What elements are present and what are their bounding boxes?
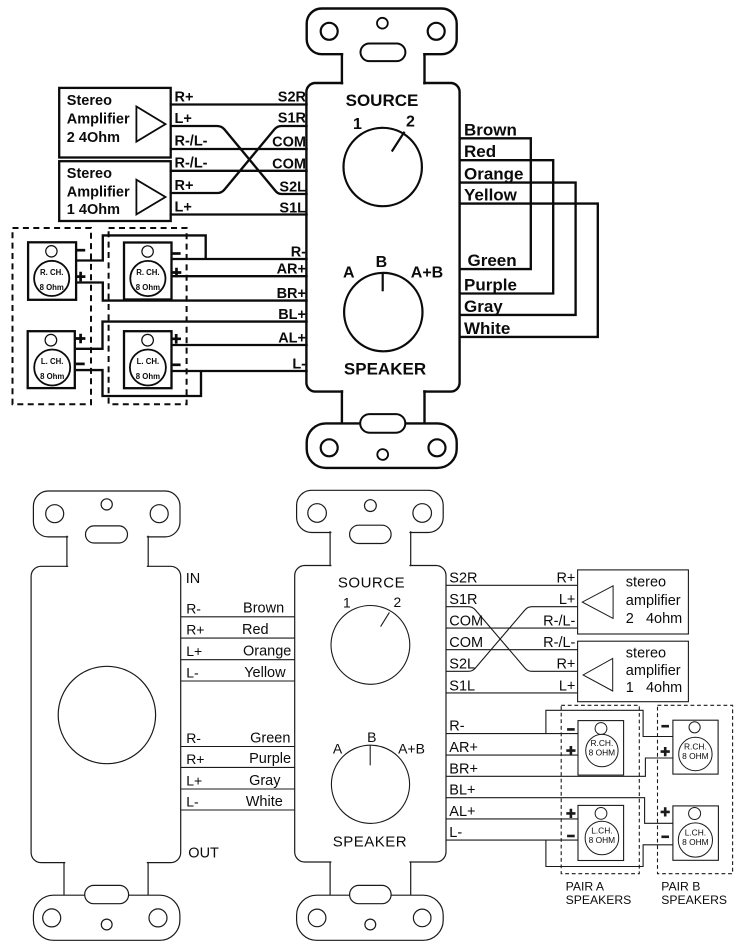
amplifier box: stereo amplifier 2 4ohm (bottom) xyxy=(578,570,689,634)
svg-text:Orange: Orange xyxy=(243,644,291,660)
svg-text:AR+: AR+ xyxy=(449,740,478,756)
wire OUT R+ (Purple) xyxy=(181,766,295,768)
svg-text:SPEAKER: SPEAKER xyxy=(344,360,426,379)
svg-text:PAIR A: PAIR A xyxy=(566,880,605,894)
wire OUT L+ (Gray) xyxy=(181,788,295,790)
svg-text:R. CH.: R. CH. xyxy=(136,268,159,277)
plus terminal (pair B L.CH) xyxy=(76,334,86,344)
svg-text:COM: COM xyxy=(272,135,306,151)
svg-text:Red: Red xyxy=(242,622,269,638)
svg-text:Purple: Purple xyxy=(249,751,291,767)
svg-text:amplifier: amplifier xyxy=(626,663,681,679)
volume knob hole (bottom left plate) xyxy=(58,666,155,763)
svg-text:L+: L+ xyxy=(175,200,192,216)
speaker L.CH 8 Ohm (pair B, top) xyxy=(28,331,75,388)
svg-text:R+: R+ xyxy=(175,178,194,194)
svg-text:L+: L+ xyxy=(559,678,576,694)
wire IN L+ (Orange) xyxy=(181,659,295,661)
pair A dashed enclosure (top) xyxy=(109,228,187,404)
wire AL+ (bottom) xyxy=(446,818,578,820)
wire Red to Purple loop xyxy=(460,160,554,293)
svg-text:Stereo: Stereo xyxy=(67,166,112,182)
wire COM to amp2 R-/L- (bottom) xyxy=(446,627,577,629)
svg-text:B: B xyxy=(367,729,376,745)
amplifier box: Stereo Amplifier 1 4Ohm xyxy=(59,161,171,221)
speaker R.CH 8 Ohm (pair A, top) xyxy=(124,243,172,300)
svg-text:R+: R+ xyxy=(186,751,204,767)
svg-text:8 Ohm: 8 Ohm xyxy=(40,372,64,381)
svg-text:COM: COM xyxy=(449,614,483,630)
wire BR+ (bottom) xyxy=(446,758,673,776)
svg-text:R. CH.: R. CH. xyxy=(40,268,63,277)
svg-text:Brown: Brown xyxy=(464,120,517,139)
svg-text:8 OHM: 8 OHM xyxy=(682,751,709,761)
svg-text:S1R: S1R xyxy=(449,592,477,608)
svg-text:amplifier: amplifier xyxy=(626,593,681,609)
speaker R.CH 8 OHM (pair B, bottom) xyxy=(673,720,718,774)
minus terminal (pair B L.CH) xyxy=(76,363,85,366)
svg-text:Gray: Gray xyxy=(464,297,503,316)
svg-text:Yellow: Yellow xyxy=(464,186,518,205)
svg-text:A: A xyxy=(343,265,355,282)
svg-text:L-: L- xyxy=(186,794,199,810)
plus terminal (pair B L.CH bottom) xyxy=(661,807,670,816)
wire AR+ (bottom) xyxy=(446,754,578,756)
wire AR+ xyxy=(172,275,308,277)
svg-text:2 4ohm: 2 4ohm xyxy=(626,611,682,627)
svg-text:White: White xyxy=(246,794,283,810)
svg-text:R-/L-: R-/L- xyxy=(175,134,208,150)
svg-text:2 4Ohm: 2 4Ohm xyxy=(67,130,120,146)
wire IN L- (Yellow) xyxy=(181,680,295,682)
svg-text:L.CH.: L.CH. xyxy=(685,827,706,837)
wire L- net (bottom, pair A + pair B L.CH minus) xyxy=(446,840,673,866)
label PAIR B SPEAKERS xyxy=(661,880,727,907)
svg-text:SPEAKERS: SPEAKERS xyxy=(566,893,632,907)
speaker knob (bottom plate) xyxy=(331,745,409,823)
svg-text:L-: L- xyxy=(449,825,462,841)
svg-text:SPEAKER: SPEAKER xyxy=(333,833,407,850)
svg-text:R+: R+ xyxy=(556,571,575,587)
speaker L.CH 8 OHM (pair A, bottom) xyxy=(578,805,624,860)
svg-text:R-/L-: R-/L- xyxy=(543,614,575,630)
svg-text:Green: Green xyxy=(250,730,290,746)
pair B dashed enclosure (top) xyxy=(13,228,92,404)
svg-text:Amplifier: Amplifier xyxy=(67,111,130,127)
svg-text:stereo: stereo xyxy=(626,575,666,591)
minus terminal (pair A L.CH) xyxy=(172,363,181,366)
svg-text:L. CH.: L. CH. xyxy=(137,357,160,366)
minus terminal (pair B L.CH bottom) xyxy=(661,835,669,838)
svg-text:A+B: A+B xyxy=(398,741,425,757)
wire Brown to Green loop xyxy=(460,138,531,269)
wire Orange to Gray loop xyxy=(460,183,576,315)
wire BL+ (bottom) xyxy=(446,798,673,824)
selector wall plate (bottom right) xyxy=(295,490,446,940)
source knob (bottom plate) xyxy=(331,606,410,685)
svg-text:1: 1 xyxy=(353,116,362,133)
wire OUT R- (Green) xyxy=(181,746,295,748)
wire Yellow to White loop xyxy=(460,204,598,337)
svg-text:2: 2 xyxy=(406,114,415,131)
wire S1R to amp1 R+ (bottom crossover) xyxy=(446,607,577,672)
svg-text:R.CH.: R.CH. xyxy=(590,738,613,748)
svg-text:A+B: A+B xyxy=(411,265,443,282)
svg-text:BR+: BR+ xyxy=(449,761,478,777)
plus terminal (pair A R.CH bottom) xyxy=(566,746,575,755)
wire S2R to amp2 R+ (bottom) xyxy=(446,584,577,586)
plus terminal (pair A L.CH bottom) xyxy=(566,809,575,818)
plus terminal (pair B R.CH) xyxy=(76,272,86,282)
svg-text:PAIR B: PAIR B xyxy=(661,880,700,894)
svg-text:L.CH.: L.CH. xyxy=(591,825,612,835)
minus terminal (pair B R.CH bottom) xyxy=(661,725,669,728)
wire R- net (bottom, pair A + pair B R.CH minus) xyxy=(446,710,673,736)
minus terminal (pair A L.CH bottom) xyxy=(567,835,575,838)
svg-text:R-: R- xyxy=(291,245,306,261)
svg-text:L+: L+ xyxy=(175,111,192,127)
wire S1L to amp1 L+ (bottom) xyxy=(446,692,577,694)
svg-text:R+: R+ xyxy=(556,657,575,673)
wire amp1 R-/L- to COM xyxy=(170,170,308,172)
svg-text:8 Ohm: 8 Ohm xyxy=(136,283,160,292)
wire amp2 L+ to S2L (crossover) xyxy=(170,126,308,194)
svg-text:8 OHM: 8 OHM xyxy=(589,748,616,758)
svg-text:Brown: Brown xyxy=(243,601,284,617)
svg-text:R-/L-: R-/L- xyxy=(543,635,575,651)
svg-text:1: 1 xyxy=(343,596,351,611)
label PAIR A SPEAKERS xyxy=(566,880,632,907)
svg-text:SPEAKERS: SPEAKERS xyxy=(661,893,727,907)
plus terminal (pair A L.CH) xyxy=(171,334,181,344)
svg-text:Stereo: Stereo xyxy=(67,93,112,109)
svg-text:1 4Ohm: 1 4Ohm xyxy=(67,202,120,218)
svg-text:8 Ohm: 8 Ohm xyxy=(136,372,160,381)
minus terminal (pair A R.CH bottom) xyxy=(567,728,575,731)
svg-text:L-: L- xyxy=(292,357,306,373)
amplifier box: Stereo Amplifier 2 4Ohm xyxy=(59,88,171,158)
svg-text:R+: R+ xyxy=(175,90,194,106)
speaker R.CH 8 Ohm (pair B, top) xyxy=(28,242,76,299)
svg-text:L-: L- xyxy=(186,665,199,681)
svg-text:B: B xyxy=(376,254,388,271)
svg-text:R-: R- xyxy=(186,600,201,616)
speaker knob (top plate) xyxy=(344,273,422,351)
speaker R.CH 8 OHM (pair A, bottom) xyxy=(578,721,624,776)
svg-text:R-: R- xyxy=(449,719,464,735)
minus terminal (pair B R.CH) xyxy=(76,249,85,252)
svg-text:S2L: S2L xyxy=(279,180,306,196)
wire R- net (to pair A and pair B R.CH minus) xyxy=(76,235,308,260)
plus terminal (pair B R.CH bottom) xyxy=(661,747,670,756)
speaker L.CH 8 Ohm (pair A, top) xyxy=(124,331,172,388)
svg-text:R.CH.: R.CH. xyxy=(684,741,707,751)
wire amp1 R+ to S1R (crossover) xyxy=(170,126,308,193)
svg-text:Red: Red xyxy=(464,142,496,161)
wire amp2 R-/L- to COM xyxy=(170,148,308,150)
svg-text:Amplifier: Amplifier xyxy=(67,184,130,200)
svg-text:L+: L+ xyxy=(186,643,202,659)
wire COM to amp1 R-/L- (bottom) xyxy=(446,649,577,651)
svg-text:2: 2 xyxy=(393,595,401,610)
svg-text:BL+: BL+ xyxy=(278,307,306,323)
svg-text:AR+: AR+ xyxy=(277,262,306,278)
svg-text:L+: L+ xyxy=(186,773,202,789)
svg-text:8 OHM: 8 OHM xyxy=(682,837,709,847)
svg-text:AL+: AL+ xyxy=(449,804,475,820)
speaker L.CH 8 OHM (pair B, bottom) xyxy=(673,806,719,860)
wall plate (top selector plate) xyxy=(306,9,459,468)
svg-text:S2R: S2R xyxy=(449,571,477,587)
svg-text:A: A xyxy=(333,741,343,757)
wire L- net (to pair A and pair B L.CH minus) xyxy=(76,370,308,396)
svg-text:COM: COM xyxy=(449,635,483,651)
svg-text:L+: L+ xyxy=(559,592,576,608)
svg-text:OUT: OUT xyxy=(188,846,219,862)
wire IN R- (Brown) xyxy=(181,616,295,618)
plus terminal (pair A R.CH) xyxy=(172,268,182,278)
svg-text:Orange: Orange xyxy=(464,165,524,184)
svg-text:BR+: BR+ xyxy=(277,286,306,302)
svg-text:COM: COM xyxy=(272,157,306,173)
amplifier box: stereo amplifier 1 4ohm (bottom) xyxy=(578,641,689,702)
wire IN R+ (Red) xyxy=(181,637,295,639)
wire amp2 R+ to S2R xyxy=(170,103,308,105)
wire OUT L- (White) xyxy=(181,809,295,811)
svg-text:AL+: AL+ xyxy=(278,331,306,347)
svg-text:stereo: stereo xyxy=(626,645,666,661)
svg-text:Green: Green xyxy=(468,251,517,270)
pair A dashed enclosure (bottom) xyxy=(561,705,639,873)
svg-text:BL+: BL+ xyxy=(449,783,475,799)
pair B dashed enclosure (bottom) xyxy=(658,705,733,873)
svg-text:IN: IN xyxy=(186,571,201,587)
svg-text:Purple: Purple xyxy=(464,276,517,295)
svg-text:S1L: S1L xyxy=(279,201,306,217)
svg-text:S2L: S2L xyxy=(449,657,475,673)
svg-text:Gray: Gray xyxy=(249,773,281,789)
source knob (top plate) xyxy=(344,128,422,206)
volume control wall plate (bottom left) xyxy=(31,491,181,940)
wire amp1 L+ to S1L xyxy=(170,213,308,215)
svg-text:8 Ohm: 8 Ohm xyxy=(40,283,64,292)
svg-text:L. CH.: L. CH. xyxy=(41,357,64,366)
svg-text:Yellow: Yellow xyxy=(244,665,286,681)
wire BL+ net xyxy=(76,322,308,349)
wire BR+ net xyxy=(76,283,308,301)
svg-text:SOURCE: SOURCE xyxy=(346,91,419,110)
svg-text:S2R: S2R xyxy=(278,90,307,106)
svg-text:1 4ohm: 1 4ohm xyxy=(626,680,682,696)
svg-text:SOURCE: SOURCE xyxy=(338,574,405,591)
svg-text:White: White xyxy=(464,319,510,338)
svg-text:S1L: S1L xyxy=(449,678,475,694)
wire S2L to amp2 L+ (bottom crossover) xyxy=(446,607,577,672)
minus terminal (pair A R.CH) xyxy=(172,252,181,255)
svg-text:S1R: S1R xyxy=(278,111,307,127)
svg-text:R-: R- xyxy=(186,730,201,746)
svg-text:R+: R+ xyxy=(186,622,204,638)
svg-text:R-/L-: R-/L- xyxy=(175,156,208,172)
wire AL+ xyxy=(172,344,308,346)
svg-text:8 OHM: 8 OHM xyxy=(589,835,616,845)
